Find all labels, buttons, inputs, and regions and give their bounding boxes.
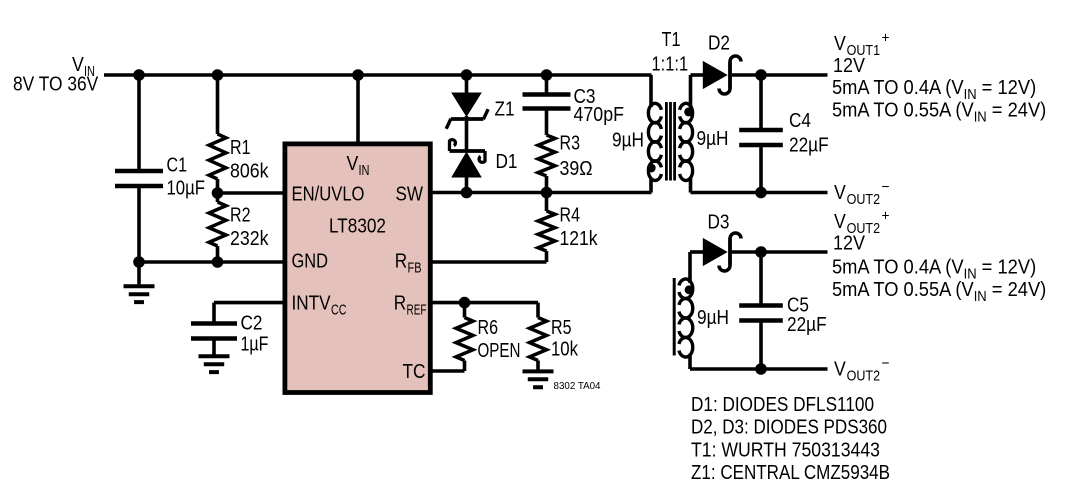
svg-text:−: − bbox=[882, 355, 890, 372]
svg-text:5mA TO 0.4A (V: 5mA TO 0.4A (V bbox=[832, 256, 964, 278]
svg-text:R4: R4 bbox=[560, 205, 581, 227]
svg-text:R3: R3 bbox=[560, 133, 581, 155]
svg-text:9µH: 9µH bbox=[612, 130, 644, 152]
svg-text:OUT2: OUT2 bbox=[847, 191, 881, 208]
svg-text:FB: FB bbox=[408, 260, 422, 277]
svg-text:R2: R2 bbox=[230, 205, 251, 227]
svg-text:5mA TO 0.4A (V: 5mA TO 0.4A (V bbox=[832, 77, 964, 99]
svg-text:1µF: 1µF bbox=[241, 334, 269, 356]
svg-text:8302 TA04: 8302 TA04 bbox=[554, 380, 601, 392]
svg-text:9µH: 9µH bbox=[697, 307, 729, 329]
svg-text:D3: D3 bbox=[708, 212, 730, 234]
svg-text:V: V bbox=[834, 33, 846, 55]
svg-text:IN: IN bbox=[359, 162, 370, 179]
svg-text:C2: C2 bbox=[241, 313, 263, 335]
svg-text:Z1: Z1 bbox=[495, 99, 515, 121]
svg-text:22µF: 22µF bbox=[787, 314, 827, 336]
svg-text:OPEN: OPEN bbox=[478, 340, 521, 362]
svg-text:V: V bbox=[347, 153, 359, 175]
svg-text:+: + bbox=[882, 30, 890, 47]
svg-text:R5: R5 bbox=[551, 317, 572, 339]
svg-text:= 24V): = 24V) bbox=[987, 100, 1047, 122]
svg-text:−: − bbox=[882, 179, 890, 196]
svg-text:806k: 806k bbox=[230, 161, 269, 183]
svg-text:8V TO 36V: 8V TO 36V bbox=[13, 74, 99, 96]
svg-text:R1: R1 bbox=[230, 137, 251, 159]
svg-text:C4: C4 bbox=[789, 110, 811, 132]
svg-text:12V: 12V bbox=[833, 233, 866, 255]
svg-text:D1: DIODES DFLS1100: D1: DIODES DFLS1100 bbox=[691, 394, 874, 416]
svg-text:10k: 10k bbox=[551, 339, 579, 361]
svg-text:V: V bbox=[834, 182, 846, 204]
svg-text:22µF: 22µF bbox=[789, 135, 829, 157]
svg-text:REF: REF bbox=[407, 302, 427, 319]
svg-text:T1: WURTH 750313443: T1: WURTH 750313443 bbox=[691, 440, 880, 462]
svg-text:= 12V): = 12V) bbox=[977, 77, 1037, 99]
svg-text:232k: 232k bbox=[230, 228, 269, 250]
svg-text:10µF: 10µF bbox=[167, 178, 206, 200]
svg-text:V: V bbox=[834, 211, 846, 233]
svg-text:39Ω: 39Ω bbox=[560, 158, 593, 180]
svg-text:TC: TC bbox=[403, 361, 426, 383]
svg-text:T1: T1 bbox=[662, 29, 681, 51]
svg-text:IN: IN bbox=[974, 288, 987, 305]
svg-text:R: R bbox=[395, 251, 407, 273]
svg-text:= 24V): = 24V) bbox=[987, 279, 1047, 301]
svg-text:INTV: INTV bbox=[292, 293, 332, 315]
svg-text:OUT2: OUT2 bbox=[847, 368, 881, 385]
svg-text:D1: D1 bbox=[496, 151, 518, 173]
svg-text:= 12V): = 12V) bbox=[977, 256, 1037, 278]
svg-text:+: + bbox=[882, 208, 890, 225]
svg-text:SW: SW bbox=[396, 184, 424, 206]
svg-text:12V: 12V bbox=[833, 55, 866, 77]
svg-text:D2, D3: DIODES PDS360: D2, D3: DIODES PDS360 bbox=[691, 417, 887, 439]
svg-text:D2: D2 bbox=[708, 33, 730, 55]
svg-text:121k: 121k bbox=[560, 228, 599, 250]
svg-text:IN: IN bbox=[974, 109, 987, 126]
svg-text:C1: C1 bbox=[167, 155, 188, 177]
svg-text:9µH: 9µH bbox=[697, 128, 729, 150]
svg-text:1:1:1: 1:1:1 bbox=[652, 54, 689, 76]
svg-text:EN/UVLO: EN/UVLO bbox=[292, 184, 365, 206]
svg-text:CC: CC bbox=[331, 302, 347, 319]
svg-text:Z1: CENTRAL CMZ5934B: Z1: CENTRAL CMZ5934B bbox=[691, 462, 890, 484]
svg-text:V: V bbox=[834, 359, 846, 381]
svg-text:5mA TO 0.55A (V: 5mA TO 0.55A (V bbox=[832, 100, 974, 122]
svg-text:LT8302: LT8302 bbox=[329, 216, 386, 238]
svg-text:R6: R6 bbox=[478, 317, 499, 339]
svg-text:GND: GND bbox=[292, 251, 329, 273]
svg-text:R: R bbox=[394, 293, 406, 315]
svg-text:470pF: 470pF bbox=[574, 104, 625, 126]
svg-text:5mA TO 0.55A (V: 5mA TO 0.55A (V bbox=[832, 279, 974, 301]
